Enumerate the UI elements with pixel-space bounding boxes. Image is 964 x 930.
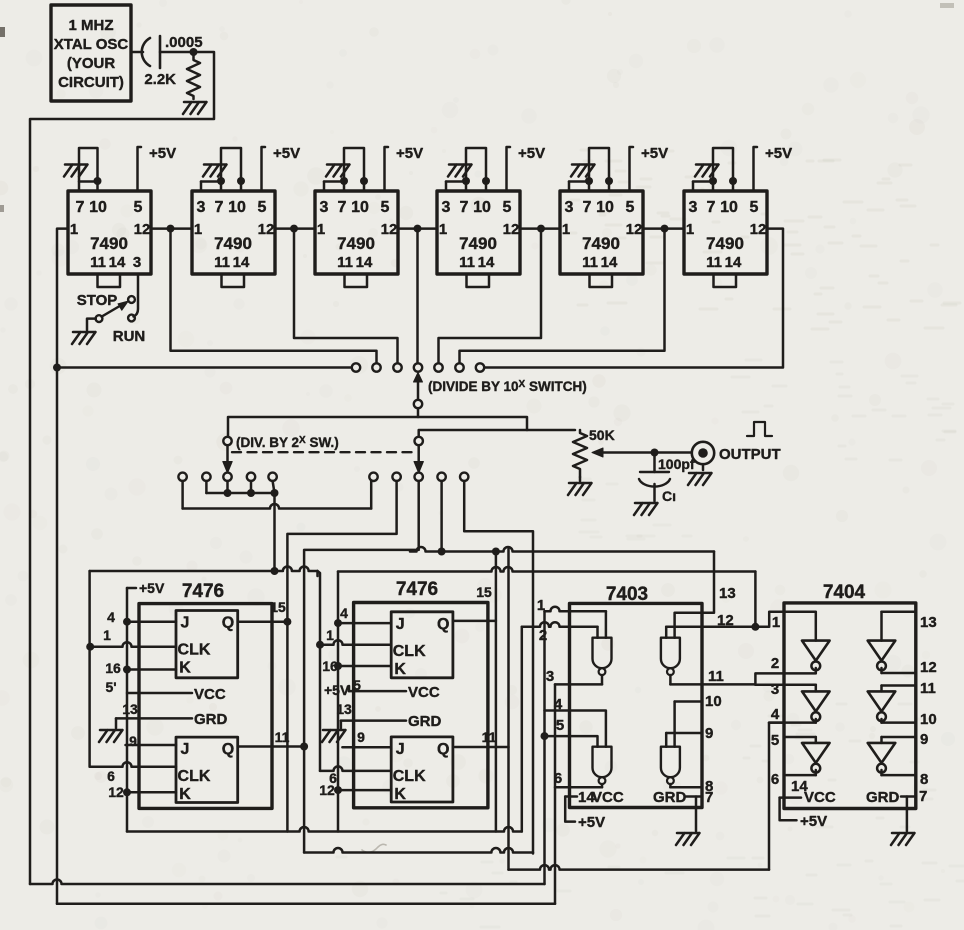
svg-text:1: 1 bbox=[317, 221, 325, 238]
svg-text:7: 7 bbox=[583, 199, 592, 216]
svg-text:11: 11 bbox=[920, 680, 936, 697]
svg-text:11: 11 bbox=[482, 729, 497, 745]
svg-text:OUTPUT: OUTPUT bbox=[719, 446, 781, 463]
svg-text:+5V: +5V bbox=[800, 813, 827, 830]
svg-text:6: 6 bbox=[771, 771, 779, 788]
svg-text:7: 7 bbox=[919, 788, 927, 805]
svg-text:7490: 7490 bbox=[706, 234, 744, 253]
svg-text:11: 11 bbox=[708, 668, 724, 685]
svg-text:10: 10 bbox=[720, 199, 738, 216]
svg-text:CLK: CLK bbox=[393, 768, 426, 785]
svg-text:12: 12 bbox=[503, 221, 520, 238]
svg-text:14: 14 bbox=[109, 254, 126, 271]
svg-text:7: 7 bbox=[707, 199, 716, 216]
svg-text:+5V: +5V bbox=[273, 145, 300, 162]
svg-text:5: 5 bbox=[134, 199, 143, 216]
svg-text:10: 10 bbox=[351, 199, 369, 216]
svg-text:11: 11 bbox=[214, 254, 230, 271]
svg-text:7490: 7490 bbox=[582, 234, 620, 253]
svg-text:5: 5 bbox=[750, 199, 759, 216]
svg-text:7: 7 bbox=[215, 199, 224, 216]
svg-text:10: 10 bbox=[228, 199, 246, 216]
svg-text:12: 12 bbox=[258, 221, 275, 238]
svg-text:12: 12 bbox=[717, 612, 734, 629]
svg-text:+5V: +5V bbox=[139, 580, 165, 596]
svg-text:13: 13 bbox=[920, 614, 937, 631]
svg-text:CLK: CLK bbox=[393, 643, 426, 660]
svg-text:7: 7 bbox=[76, 199, 85, 216]
svg-text:J: J bbox=[181, 615, 190, 632]
svg-text:9: 9 bbox=[357, 729, 365, 745]
svg-text:12: 12 bbox=[626, 221, 643, 238]
svg-text:3: 3 bbox=[565, 199, 574, 216]
svg-text:100pf: 100pf bbox=[658, 456, 695, 472]
svg-text:5: 5 bbox=[556, 717, 564, 734]
svg-text:CIRCUIT): CIRCUIT) bbox=[58, 74, 124, 91]
svg-text:1: 1 bbox=[194, 221, 202, 238]
svg-text:12: 12 bbox=[381, 221, 398, 238]
svg-text:1: 1 bbox=[326, 627, 334, 643]
svg-text:Q: Q bbox=[222, 615, 234, 632]
svg-text:4: 4 bbox=[771, 706, 780, 723]
svg-text:11: 11 bbox=[337, 254, 353, 271]
svg-text:1 MHZ: 1 MHZ bbox=[69, 17, 114, 34]
svg-text:12: 12 bbox=[134, 221, 151, 238]
svg-text:+5V: +5V bbox=[149, 145, 176, 162]
svg-text:7: 7 bbox=[338, 199, 347, 216]
svg-text:(YOUR: (YOUR bbox=[67, 55, 116, 72]
svg-text:7490: 7490 bbox=[214, 234, 252, 253]
svg-text:8: 8 bbox=[920, 771, 928, 788]
svg-text:2: 2 bbox=[771, 655, 779, 672]
svg-text:+5V: +5V bbox=[765, 145, 792, 162]
svg-text:GRD: GRD bbox=[653, 789, 687, 806]
svg-text:K: K bbox=[394, 661, 406, 678]
svg-text:STOP: STOP bbox=[77, 292, 118, 309]
svg-text:GRD: GRD bbox=[866, 789, 900, 806]
svg-text:CLK: CLK bbox=[178, 768, 211, 785]
svg-text:7490: 7490 bbox=[337, 234, 375, 253]
svg-text:10: 10 bbox=[596, 199, 614, 216]
svg-text:7: 7 bbox=[705, 789, 713, 806]
svg-text:3: 3 bbox=[442, 199, 451, 216]
svg-text:12: 12 bbox=[920, 659, 937, 676]
svg-text:+5V: +5V bbox=[578, 814, 605, 831]
svg-text:10: 10 bbox=[89, 199, 107, 216]
svg-text:1: 1 bbox=[686, 221, 694, 238]
svg-text:VCC: VCC bbox=[592, 789, 624, 806]
svg-text:4: 4 bbox=[340, 605, 348, 621]
svg-text:13: 13 bbox=[122, 701, 138, 717]
svg-text:5: 5 bbox=[503, 199, 512, 216]
svg-text:1: 1 bbox=[772, 614, 780, 631]
svg-text:1: 1 bbox=[562, 221, 570, 238]
svg-text:16: 16 bbox=[105, 660, 121, 676]
svg-text:10: 10 bbox=[920, 711, 937, 728]
svg-text:5: 5 bbox=[258, 199, 267, 216]
svg-text:VCC: VCC bbox=[194, 686, 226, 703]
svg-text:3: 3 bbox=[546, 668, 554, 685]
svg-text:7403: 7403 bbox=[606, 584, 648, 605]
svg-text:XTAL OSC: XTAL OSC bbox=[54, 36, 129, 53]
svg-text:(DIV. BY 2X SW.): (DIV. BY 2X SW.) bbox=[236, 435, 339, 450]
svg-text:Q: Q bbox=[437, 616, 449, 633]
svg-text:12: 12 bbox=[108, 784, 124, 800]
svg-text:Q: Q bbox=[222, 741, 234, 758]
svg-text:VCC: VCC bbox=[804, 789, 836, 806]
svg-text:9: 9 bbox=[920, 731, 928, 748]
svg-text:Cı: Cı bbox=[662, 488, 676, 504]
svg-text:12: 12 bbox=[319, 782, 335, 798]
svg-text:50K: 50K bbox=[589, 427, 615, 443]
svg-text:14: 14 bbox=[478, 254, 495, 271]
svg-text:3: 3 bbox=[689, 199, 698, 216]
svg-text:3: 3 bbox=[133, 254, 141, 271]
svg-text:RUN: RUN bbox=[113, 328, 146, 345]
svg-text:5: 5 bbox=[771, 732, 779, 749]
svg-text:J: J bbox=[396, 616, 405, 633]
svg-text:14: 14 bbox=[725, 254, 742, 271]
svg-text:11: 11 bbox=[582, 254, 598, 271]
svg-text:12: 12 bbox=[750, 221, 767, 238]
svg-text:5: 5 bbox=[381, 199, 390, 216]
svg-text:K: K bbox=[179, 786, 191, 803]
svg-text:11: 11 bbox=[706, 254, 722, 271]
svg-text:J: J bbox=[396, 741, 405, 758]
svg-text:6: 6 bbox=[554, 770, 562, 787]
svg-text:7476: 7476 bbox=[182, 581, 224, 602]
svg-text:4: 4 bbox=[107, 609, 115, 625]
svg-text:14: 14 bbox=[233, 254, 250, 271]
svg-text:1: 1 bbox=[70, 221, 78, 238]
svg-text:+5V: +5V bbox=[396, 145, 423, 162]
svg-text:14: 14 bbox=[356, 254, 373, 271]
svg-text:15: 15 bbox=[270, 599, 286, 615]
svg-text:13: 13 bbox=[719, 585, 736, 602]
svg-text:3: 3 bbox=[320, 199, 329, 216]
svg-text:11: 11 bbox=[275, 729, 290, 745]
svg-text:2.2K: 2.2K bbox=[144, 71, 176, 88]
svg-text:GRD: GRD bbox=[194, 711, 228, 728]
svg-text:Q: Q bbox=[437, 741, 449, 758]
svg-text:11: 11 bbox=[90, 254, 106, 271]
svg-text:9: 9 bbox=[705, 725, 713, 742]
svg-text:7490: 7490 bbox=[459, 234, 497, 253]
svg-text:11: 11 bbox=[459, 254, 475, 271]
svg-text:10: 10 bbox=[705, 693, 722, 710]
svg-text:14: 14 bbox=[601, 254, 618, 271]
svg-text:1: 1 bbox=[103, 627, 111, 643]
svg-text:10: 10 bbox=[473, 199, 491, 216]
svg-text:5': 5' bbox=[105, 679, 116, 695]
svg-text:K: K bbox=[394, 786, 406, 803]
svg-text:15: 15 bbox=[476, 584, 492, 600]
svg-text:9: 9 bbox=[129, 733, 137, 749]
svg-text:3: 3 bbox=[197, 199, 206, 216]
svg-text:6: 6 bbox=[107, 768, 115, 784]
svg-text:1: 1 bbox=[439, 221, 447, 238]
svg-text:7404: 7404 bbox=[823, 582, 866, 603]
svg-text:K: K bbox=[179, 660, 191, 677]
svg-text:+5V: +5V bbox=[518, 145, 545, 162]
svg-text:J: J bbox=[181, 741, 190, 758]
svg-text:7: 7 bbox=[460, 199, 469, 216]
svg-text:VCC: VCC bbox=[408, 684, 440, 701]
svg-text:7490: 7490 bbox=[90, 234, 128, 253]
svg-text:CLK: CLK bbox=[178, 642, 211, 659]
svg-text:(DIVIDE BY 10X SWITCH): (DIVIDE BY 10X SWITCH) bbox=[428, 379, 587, 394]
svg-text:4: 4 bbox=[554, 696, 563, 713]
svg-text:5: 5 bbox=[626, 199, 635, 216]
svg-text:7476: 7476 bbox=[396, 579, 438, 600]
svg-text:GRD: GRD bbox=[408, 713, 442, 730]
svg-text:+5V: +5V bbox=[641, 145, 668, 162]
svg-text:.0005: .0005 bbox=[165, 34, 203, 51]
svg-text:3: 3 bbox=[771, 681, 779, 698]
svg-text:2: 2 bbox=[539, 627, 547, 644]
